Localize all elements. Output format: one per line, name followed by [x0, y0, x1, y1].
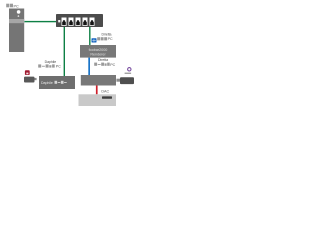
svg-text:Daphile: Daphile	[45, 60, 57, 64]
windows logo icon	[92, 38, 97, 42]
USB DDC dongle (right)	[116, 77, 134, 84]
svg-text:Diretta: Diretta	[102, 33, 112, 37]
network switch	[56, 14, 103, 27]
wire: foobar box to Diretta target (blue vertical)	[88, 58, 90, 76]
Daphile server box	[39, 76, 75, 89]
PC tower	[9, 9, 24, 53]
label Diretta target PC	[94, 58, 115, 67]
wire: target PC to DAC (red USB)	[96, 86, 98, 95]
svg-text:PC: PC	[56, 65, 61, 69]
svg-text:Diretta: Diretta	[98, 58, 108, 62]
DAC unit	[79, 94, 117, 106]
svg-text:DAC: DAC	[101, 89, 109, 93]
label Diretta host PC	[97, 33, 113, 42]
wire: PC to switch (green horizontal)	[25, 21, 57, 22]
Diretta target PC box	[81, 75, 116, 86]
Diretta logo (purple ring)	[125, 68, 132, 74]
USB stick with red cap (left of Daphile box)	[24, 70, 37, 82]
background	[0, 0, 140, 113]
wire: switch down to Daphile server (green vertical)	[64, 27, 65, 76]
svg-text:PC: PC	[14, 4, 20, 8]
svg-text:PC: PC	[110, 63, 115, 67]
label Daphile target PC	[38, 60, 61, 69]
svg-text:PC: PC	[108, 37, 113, 41]
label 汎用PC (generic PC)	[6, 4, 19, 9]
wire: switch down to foobar2000 box (green vertical)	[89, 27, 90, 45]
svg-text:Daphile: Daphile	[41, 81, 53, 85]
svg-text:foobar2000: foobar2000	[89, 48, 108, 52]
svg-text:Renderer: Renderer	[90, 53, 106, 57]
foobar2000 renderer box	[80, 45, 116, 58]
